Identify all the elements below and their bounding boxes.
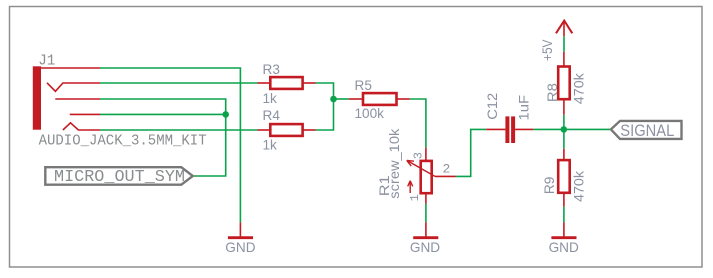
resistor R8 xyxy=(563,52,565,67)
svg-text:R3: R3 xyxy=(263,62,280,77)
ground symbol (R9) xyxy=(563,222,565,236)
svg-text:J1: J1 xyxy=(38,54,55,70)
svg-text:R8: R8 xyxy=(545,83,560,102)
connector J1 audio jack body xyxy=(33,66,41,129)
wire R5 to pot R1 xyxy=(410,99,426,148)
resistor R5 xyxy=(349,98,363,100)
svg-text:3: 3 xyxy=(411,152,425,159)
potentiometer R1 body xyxy=(421,161,432,193)
wire wiper to C12 xyxy=(456,129,487,176)
wire pot pin1 to GND xyxy=(425,204,427,223)
svg-text:100k: 100k xyxy=(355,106,385,121)
potentiometer R1 screw adjust arrow xyxy=(409,181,411,193)
svg-text:AUDIO_JACK_3.5MM_KIT: AUDIO_JACK_3.5MM_KIT xyxy=(39,133,207,149)
wire +5V to R8 xyxy=(563,36,565,52)
svg-text:GND: GND xyxy=(410,240,440,255)
J1 pin 2 (tip switch) lead xyxy=(47,83,100,92)
capacitor C12 left lead xyxy=(486,128,505,130)
ground symbol (jack sleeve) xyxy=(239,222,241,236)
wire R8 to junction xyxy=(563,115,565,149)
junction pin3/pin4 xyxy=(222,111,229,118)
svg-text:470k: 470k xyxy=(572,73,587,104)
wire pin2 to R3 xyxy=(100,82,258,84)
potentiometer R1 wiper arrow xyxy=(407,160,435,176)
svg-text:+5V: +5V xyxy=(540,40,555,62)
svg-text:1k: 1k xyxy=(263,138,278,153)
wire pin4 xyxy=(100,113,226,115)
wire C12 to junction and SIGNAL xyxy=(533,128,611,130)
potentiometer R1 pin1 lead xyxy=(425,193,427,203)
svg-text:MICRO_OUT_SYM: MICRO_OUT_SYM xyxy=(54,168,185,187)
svg-text:R4: R4 xyxy=(263,108,281,123)
net label MICRO_OUT_SYM xyxy=(45,167,193,185)
svg-text:470k: 470k xyxy=(571,171,586,202)
svg-text:screw_10k: screw_10k xyxy=(387,128,402,198)
J1 pin 3 lead xyxy=(55,98,100,100)
junction C12/R8/R9/SIGNAL xyxy=(561,126,568,133)
wire pin3 down to MICRO_OUT_SYM xyxy=(100,99,226,176)
svg-text:GND: GND xyxy=(225,240,255,255)
net label SIGNAL xyxy=(611,121,682,139)
resistor R9 xyxy=(563,149,565,160)
svg-text:R5: R5 xyxy=(355,78,372,93)
ground symbol (pot) xyxy=(425,222,427,236)
junction R3/R4/R5 xyxy=(330,96,337,103)
resistor R4 xyxy=(258,129,271,131)
potentiometer R1 wiper pin2 lead xyxy=(435,175,456,177)
potentiometer R1 pin3 lead xyxy=(425,148,427,161)
svg-text:1k: 1k xyxy=(263,91,278,106)
J1 pin 1 (sleeve) lead xyxy=(41,67,101,69)
svg-text:2: 2 xyxy=(443,161,451,176)
wire R9 to GND xyxy=(563,207,565,223)
capacitor C12 plates xyxy=(505,116,509,143)
svg-text:R9: R9 xyxy=(542,177,557,195)
svg-text:1: 1 xyxy=(408,194,422,201)
capacitor C12 right lead xyxy=(515,128,533,130)
svg-text:GND: GND xyxy=(549,240,579,255)
svg-text:C12: C12 xyxy=(485,93,500,120)
resistor R3 xyxy=(258,82,271,84)
J1 pin 4 lead xyxy=(70,113,100,115)
wire pin1 to GND xyxy=(100,68,240,222)
J1 pin 5 (ring contact) lead xyxy=(63,123,100,130)
wire pin5 to R4 xyxy=(100,129,258,131)
wire R3/R4 right side to R5 xyxy=(316,83,334,130)
+5V supply symbol xyxy=(556,21,572,34)
svg-text:SIGNAL: SIGNAL xyxy=(620,121,674,140)
wire junction to R5 xyxy=(334,98,349,100)
svg-text:1uF: 1uF xyxy=(516,95,531,121)
